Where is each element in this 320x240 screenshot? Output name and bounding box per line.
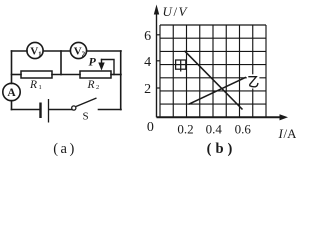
wire top rail middle segment bbox=[43, 50, 70, 52]
label yi (CJK 乙) white backing bbox=[247, 74, 260, 88]
wire slider bracket bbox=[102, 60, 115, 75]
svg-text:4: 4 bbox=[144, 55, 151, 70]
svg-text:V2: V2 bbox=[74, 45, 86, 58]
slider P arrowhead bbox=[98, 63, 104, 71]
svg-text:A: A bbox=[7, 87, 16, 99]
wire top rail right segment bbox=[87, 50, 121, 52]
tick y=4 bbox=[157, 60, 161, 62]
svg-text:/A: /A bbox=[284, 126, 297, 141]
svg-text:R2: R2 bbox=[87, 79, 100, 91]
battery positive plate (long thin) bbox=[48, 99, 50, 123]
svg-text:V1: V1 bbox=[30, 45, 42, 58]
voltmeter V2 bbox=[70, 42, 86, 58]
svg-text:(a): (a) bbox=[53, 141, 77, 157]
wire left riser upper bbox=[11, 51, 13, 84]
svg-text:0.6: 0.6 bbox=[235, 122, 252, 137]
svg-text:V: V bbox=[179, 4, 189, 19]
label yi (CJK 乙) bbox=[248, 77, 258, 87]
wire resistor row middle bbox=[52, 74, 80, 76]
graph grid horizontal lines bbox=[160, 25, 266, 104]
svg-text:/: / bbox=[174, 4, 178, 19]
axis U (vertical) bbox=[156, 8, 158, 117]
axis I (horizontal) bbox=[157, 116, 284, 118]
svg-text:0.2: 0.2 bbox=[177, 122, 193, 137]
svg-text:6: 6 bbox=[144, 29, 151, 44]
wire right riser bbox=[120, 51, 122, 110]
wire bottom rail left bbox=[12, 109, 40, 111]
svg-text:S: S bbox=[83, 111, 89, 123]
wire middle branch node bbox=[60, 51, 62, 75]
tick y=2 bbox=[157, 87, 161, 89]
svg-text:R1: R1 bbox=[29, 79, 42, 91]
switch S pivot bbox=[72, 106, 76, 110]
wire top rail left segment bbox=[12, 50, 28, 52]
graph grid vertical lines bbox=[160, 25, 266, 117]
wire bottom rail right bbox=[99, 109, 122, 111]
curve jia (descending line) bbox=[185, 51, 243, 110]
resistor R2 (rheostat body) bbox=[80, 71, 111, 78]
battery negative plate (short thick) bbox=[39, 103, 41, 119]
svg-text:0.4: 0.4 bbox=[206, 122, 223, 137]
svg-text:U: U bbox=[163, 4, 174, 19]
svg-text:P: P bbox=[89, 55, 97, 69]
axis I arrowhead bbox=[280, 114, 289, 120]
svg-text:2: 2 bbox=[144, 82, 151, 97]
axis U arrowhead bbox=[154, 5, 159, 15]
voltmeter V1 bbox=[27, 42, 43, 58]
resistor R1 bbox=[21, 71, 52, 78]
switch S lever bbox=[76, 98, 97, 107]
wire resistor row right bbox=[111, 74, 121, 76]
svg-text:(b): (b) bbox=[207, 141, 237, 157]
wire bottom rail middle bbox=[50, 109, 72, 111]
ammeter A bbox=[3, 83, 20, 100]
curve yi (ascending line) bbox=[189, 77, 247, 104]
wire left riser lower bbox=[11, 101, 13, 110]
wire resistor row left bbox=[12, 74, 22, 76]
label jia (CJK 甲) bbox=[176, 60, 186, 72]
tick y=6 bbox=[157, 34, 161, 36]
wire slider arrow shaft bbox=[101, 60, 103, 65]
svg-text:0: 0 bbox=[147, 120, 154, 135]
